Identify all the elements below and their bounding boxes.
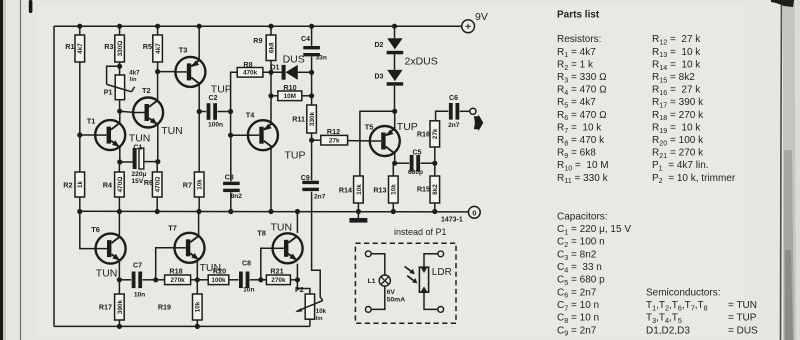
junction dots bottom rail [117,324,122,329]
svg-text:R19: R19 [158,303,171,312]
capacitor C1 electrolytic [133,148,137,169]
wire T3 collector drop [198,84,200,112]
svg-text:Semiconductors:: Semiconductors: [646,287,720,298]
svg-text:D3: D3 [374,74,383,81]
svg-text:T4: T4 [246,111,256,120]
svg-text:10k: 10k [316,308,327,315]
svg-text:T7: T7 [168,224,177,233]
svg-text:330Ω: 330Ω [117,41,124,57]
wire C2 left [199,111,206,113]
terminal box top-left [365,251,371,257]
svg-text:R9 = 6k8: R9 = 6k8 [557,148,596,160]
wire to P2 top [297,280,310,294]
wire R5 top [157,26,159,35]
wire R7 bottom [198,197,200,211]
svg-text:33n: 33n [316,55,327,62]
wire D2 top [394,26,396,38]
svg-text:R14: R14 [339,186,352,195]
wire R18 right [191,279,198,281]
svg-text:instead of P1: instead of P1 [394,227,447,237]
wire C6 left corner [436,111,449,121]
svg-text:10k: 10k [356,184,363,195]
diode D2 [387,38,402,49]
wire C1 right [144,161,158,163]
transistor T1 [95,120,125,150]
svg-text:Capacitors:: Capacitors: [557,211,608,222]
svg-text:4k7: 4k7 [155,43,162,54]
wire LDR bottom [424,292,438,309]
svg-text:R3: R3 [104,42,113,51]
wire R6 bottom [156,197,158,211]
svg-text:R12: R12 [327,127,340,136]
svg-text:TUN: TUN [200,262,222,274]
svg-text:R21: R21 [270,267,283,276]
resistor R15 [430,176,440,203]
transistor T5 [370,126,400,156]
wire R13 top [392,163,394,176]
diode D1 [282,65,286,80]
svg-text:C5 = 680 p: C5 = 680 p [557,275,605,287]
svg-text:R15: R15 [417,185,430,194]
svg-text:TUN: TUN [161,125,183,137]
svg-text:R5 = 4k7: R5 = 4k7 [557,97,596,109]
resistor R13 [389,176,399,203]
wire T3 base [158,71,176,73]
svg-text:LDR: LDR [432,267,452,278]
wire C3 bottom [230,192,232,211]
svg-text:T3​,T4​,T5​: T3​,T4​,T5​ [646,313,682,325]
wire T1 emitter drop [119,146,121,162]
wire T2 base [120,111,134,112]
wire T5 emitter riser [394,111,396,128]
wire C7 right [143,279,156,281]
wire R19 bottom [196,320,198,326]
svg-text:27k: 27k [329,138,340,145]
wire R16 top [435,120,437,122]
svg-text:T1​,T2​,T6​,T7​,T8​: T1​,T2​,T6​,T7​,T8​ [646,300,708,312]
wire T3 emitter riser [198,26,200,60]
wire R3 to P1 [119,62,121,75]
wire T6 emitter drop [118,261,120,280]
capacitor C2 [207,103,211,120]
wire R9 bottom [270,61,272,73]
output arrow [474,114,483,131]
svg-text:TUP: TUP [397,121,418,133]
wire C6 right to output [460,110,470,112]
wire D3 bottom [394,86,396,112]
svg-text:R16: R16 [417,130,430,139]
svg-text:TUN: TUN [96,267,118,279]
svg-text:R7 = 10 k: R7 = 10 k [557,122,602,134]
svg-text:270k: 270k [271,277,286,284]
wire R3 top [119,26,121,35]
terminal box bottom-left [365,307,371,313]
svg-text:C6 = 2n7: C6 = 2n7 [557,287,597,299]
svg-text:D1,D2,D3: D1,D2,D3 [646,325,690,336]
capacitor C6 [449,103,453,120]
svg-text:1473-1: 1473-1 [441,216,463,223]
wire C3 column [230,135,232,181]
wire C5 right [421,162,435,164]
resistor R7 [194,172,204,197]
svg-text:T1: T1 [87,117,96,126]
capacitor C3 [223,182,240,185]
wire R14 bottom [357,203,359,211]
wire top supply rail [54,25,462,27]
svg-text:R6: R6 [144,178,153,187]
svg-text:= DUS: = DUS [728,325,758,336]
wire T7 collector riser [198,211,200,235]
svg-text:R7: R7 [183,181,192,190]
svg-text:Resistors:: Resistors: [557,34,601,45]
resistor R11 [307,105,317,133]
svg-text:2xDUS: 2xDUS [405,56,438,68]
svg-text:100n: 100n [208,122,223,129]
transistor T6 [96,234,126,264]
svg-text:P2: P2 [295,285,304,294]
svg-text:R4: R4 [103,181,112,190]
wire R8 left corner [231,72,238,111]
svg-text:10k: 10k [195,301,202,312]
transistor T3 [175,57,205,87]
capacitor C5 [410,155,414,172]
wire T4 collector drop [270,146,272,211]
wire R13 bottom [392,203,394,211]
resistor R4 [115,172,125,197]
scan border left black bar [0,0,3,340]
wire T1 collector riser [119,111,121,124]
svg-text:DUS: DUS [283,53,305,65]
wire bottom rail [54,325,310,327]
svg-text:R13: R13 [373,186,386,195]
capacitor C7 [132,272,136,289]
svg-text:lin: lin [130,77,137,83]
resistor R6 [152,172,162,197]
svg-text:R5: R5 [143,42,152,51]
dashed box [355,243,456,323]
wire C1 left [120,161,133,163]
wire R20 left [197,279,208,281]
page corner blob top right [771,0,794,7]
svg-text:10n: 10n [134,292,145,299]
wire T8 base bracket [261,248,273,279]
svg-text:R1: R1 [65,42,74,51]
svg-text:6V: 6V [387,289,396,296]
wire LDR top [424,254,438,267]
svg-text:C7: C7 [133,263,142,270]
resistor R17 [115,294,125,320]
junction dots oscillator row [117,277,122,282]
svg-text:C7 = 10 n: C7 = 10 n [557,300,599,312]
svg-text:R2 = 1 k: R2 = 1 k [557,59,594,71]
svg-text:= TUP: = TUP [728,313,757,324]
resistor R1 [75,35,85,62]
terminal box top-right [438,251,444,257]
potentiometer P2 [305,294,314,319]
svg-text:10n: 10n [243,286,254,293]
lamp L1 [379,275,390,286]
svg-text:P1: P1 [104,88,113,97]
wire 0V rail [80,210,469,213]
resistor R14 [354,176,364,203]
wire R12 right to T5 base [348,140,370,142]
wire R9 top [270,26,272,35]
wire T5 collector drop [394,153,396,163]
resistor R2 [75,172,85,197]
svg-text:R10: R10 [283,83,296,92]
svg-text:0: 0 [472,208,476,217]
svg-text:R8: R8 [243,60,252,69]
svg-text:680p: 680p [408,169,423,176]
svg-text:2n7: 2n7 [448,122,460,129]
svg-text:T3: T3 [179,46,188,55]
page edge right shading [783,0,796,340]
transistor T2 [133,98,163,128]
svg-text:R15 = 8k2: R15 = 8k2 [652,72,695,84]
wire T2 emitter drop [157,125,159,162]
svg-text:27k: 27k [432,128,439,139]
resistor R5 [153,35,163,62]
wire R21 left [261,279,267,281]
wire R4 top [118,162,120,172]
svg-text:C9 = 2n7: C9 = 2n7 [557,325,597,337]
wire T8 collector riser [296,211,298,233]
LDR [419,267,428,292]
svg-text:R1 = 4k7: R1 = 4k7 [557,47,596,59]
wire R10 right [302,95,312,97]
svg-text:lin: lin [316,316,323,322]
capacitor C9 [302,181,319,184]
wire D1 anode [298,71,312,73]
wire T6 collector riser [118,211,120,236]
transistor T4 [248,120,278,150]
resistor R8 [237,68,263,78]
svg-text:R9: R9 [253,36,262,45]
page fold line left [20,0,22,340]
resistor R10 [278,91,302,101]
wire R21 right [290,279,297,281]
wire R15 bottom [434,203,436,211]
svg-text:R17: R17 [99,303,112,312]
svg-text:270k: 270k [170,277,185,284]
svg-text:D2: D2 [374,42,383,49]
svg-text:390k: 390k [117,299,124,314]
svg-text:TUP: TUP [211,84,232,96]
wire R17 top [118,280,120,294]
page edge right dark line [781,0,782,340]
svg-text:470Ω: 470Ω [155,177,162,193]
svg-text:8k2: 8k2 [432,184,439,195]
resistor R21 [266,275,290,285]
transistor T8 [273,233,303,263]
terminal output [470,108,476,114]
wire D2-D3 link [394,54,396,70]
wire T3 collector to R7 [198,112,200,173]
svg-text:10k: 10k [197,179,204,190]
svg-text:4k7: 4k7 [129,70,140,77]
wire R14 bracket [360,111,395,176]
svg-text:470Ω: 470Ω [117,177,124,193]
wire R6 top [156,162,158,173]
svg-text:R11: R11 [292,115,305,124]
wire C2 right [217,111,230,113]
resistor R9 [266,35,276,61]
potentiometer P1 [115,75,124,100]
svg-text:R2: R2 [63,181,72,190]
svg-text:TUP: TUP [285,150,306,162]
svg-text:C2: C2 [209,95,218,102]
wire R11 top [311,96,313,105]
svg-text:15V: 15V [132,178,144,185]
svg-text:C6: C6 [449,95,458,102]
wire R20 to C8 [229,279,239,281]
svg-text:9V: 9V [475,11,488,23]
wire R1 to T1 base node [79,62,81,172]
terminal +9V [462,20,475,33]
top-left registration tick [29,0,33,13]
svg-text:C1: C1 [133,145,142,152]
light arrows [405,266,412,271]
wire T4 base drop [230,112,232,136]
wire R11 bottom [311,133,313,140]
wire R15 top [434,163,436,176]
wire C4 bottom [311,57,313,73]
svg-text:6k8: 6k8 [268,42,275,53]
terminal box bottom-right [438,307,444,313]
wire R19 top [196,280,198,294]
resistor R3 [115,35,125,62]
wire R12 left [312,139,321,141]
svg-text:Parts list: Parts list [557,10,600,21]
resistor R20 [208,275,229,285]
wire R8 right to D1 node [263,71,282,73]
wire R18 left [156,279,165,281]
svg-text:2n7: 2n7 [314,194,326,201]
svg-text:8n2: 8n2 [231,193,243,200]
transistor T7 [175,233,205,263]
wire R10 left [271,95,278,97]
wire R1 top [79,26,81,35]
wire C9 bottom crossing 0V rail [312,192,323,301]
svg-text:= TUN: = TUN [728,300,757,311]
svg-text:1k: 1k [77,181,84,189]
wire lamp top [371,254,385,275]
wire T7 base bracket [156,248,175,280]
svg-text:T6: T6 [91,225,100,234]
svg-text:R18: R18 [169,267,182,276]
wire C5 left [395,162,410,164]
junction dots top rail [77,24,82,29]
svg-text:C4 = 33 n: C4 = 33 n [557,262,602,274]
diode D3 [387,70,402,81]
wire T6 emitter to C7 [119,279,131,281]
svg-text:C4: C4 [301,36,310,43]
wire R4 bottom [118,197,120,211]
svg-text:4k7: 4k7 [77,43,84,54]
svg-text:T2: T2 [142,86,151,95]
svg-text:C9: C9 [301,175,310,182]
resistor R18 [165,275,191,285]
svg-text:10M: 10M [284,93,296,100]
svg-text:330k: 330k [309,111,316,126]
resistor R16 [430,121,440,147]
svg-text:C5: C5 [413,150,422,157]
wire T7 emitter drop [196,261,198,280]
svg-text:T5: T5 [365,123,374,132]
svg-text:T8: T8 [257,229,266,238]
svg-text:TUN: TUN [271,222,293,234]
wire R17 bottom [118,320,120,326]
svg-text:C3: C3 [225,174,234,181]
junction dots 0V rail [77,209,82,214]
wire R16 bottom [434,147,436,163]
wire left rail [53,26,55,326]
svg-text:C1 = 220 μ, 15 V: C1 = 220 μ, 15 V [557,224,631,236]
svg-text:C3 = 8n2: C3 = 8n2 [557,249,597,261]
wire T1 base [80,134,95,136]
wire R12 node to C9 [311,140,313,180]
wire T6 base drop [80,211,96,248]
svg-text:50mA: 50mA [387,297,406,304]
svg-text:100k: 100k [211,277,226,284]
svg-text:R8 = 470 k: R8 = 470 k [557,135,605,147]
terminal 0V [468,206,480,218]
wire P2 bottom [309,319,311,326]
svg-text:P2 = 10 k, trimmer: P2 = 10 k, trimmer [652,173,736,185]
ground [357,211,359,218]
capacitor C8 [239,272,243,289]
svg-text:L1: L1 [368,278,376,285]
svg-text:C8: C8 [242,260,251,267]
wire R5 to T2 collector [157,62,159,100]
wire T4 emitter riser [270,96,272,125]
wire C4 top [311,26,313,46]
resistor R12 [321,135,348,145]
wire lamp bottom [371,286,385,309]
resistor R19 [193,294,203,320]
svg-text:TUN: TUN [129,133,151,145]
svg-text:C2 = 100 n: C2 = 100 n [557,237,605,249]
wire T8 emitter drop [296,264,298,280]
svg-text:470k: 470k [243,70,258,77]
wire to R10 node [311,72,313,96]
wire R2 bottom [79,197,81,211]
junction dots misc [77,132,82,137]
capacitor C4 [303,46,320,49]
wire T4 base [231,134,249,136]
wire P1 bottom to node [119,100,121,112]
svg-text:C8 = 10 n: C8 = 10 n [557,313,599,325]
wire node to R10 left [270,72,272,96]
wire C8 right [250,279,261,281]
svg-text:10k: 10k [391,184,398,195]
